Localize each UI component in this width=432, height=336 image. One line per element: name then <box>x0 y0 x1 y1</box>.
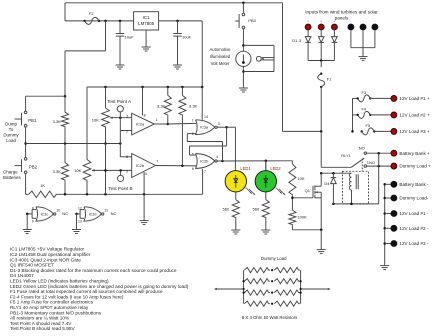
svg-text:+: + <box>320 19 322 23</box>
svg-text:PB2: PB2 <box>29 165 38 170</box>
svg-text:12V Load #3 +: 12V Load #3 + <box>399 129 429 134</box>
svg-text:F2: F2 <box>89 11 94 16</box>
svg-text:10K: 10K <box>92 118 99 123</box>
svg-text:F1: F1 <box>327 77 332 82</box>
svg-text:8 X 4 Ohm 50 Watt Resistors: 8 X 4 Ohm 50 Watt Resistors <box>242 315 297 320</box>
svg-text:RLY1 40 Amp SPDT automotive re: RLY1 40 Amp SPDT automotive relay <box>10 305 89 310</box>
svg-text:12V Load #2 +: 12V Load #2 + <box>399 113 429 118</box>
svg-text:10K: 10K <box>297 176 304 181</box>
svg-text:12V Load #1 +: 12V Load #1 + <box>399 96 429 101</box>
svg-text:8: 8 <box>144 114 146 118</box>
svg-text:4: 4 <box>145 172 147 176</box>
svg-text:Inputs from wind turbines and: Inputs from wind turbines and solar <box>305 10 378 15</box>
svg-text:D1-3: D1-3 <box>292 38 301 43</box>
svg-text:2: 2 <box>192 132 194 136</box>
svg-text:LM7805: LM7805 <box>138 21 154 26</box>
svg-text:F5 1 Amp Fuse for controller e: F5 1 Amp Fuse for controller electronics <box>10 300 94 305</box>
svg-text:IC2b: IC2b <box>136 163 144 168</box>
svg-text:1K: 1K <box>40 183 45 188</box>
svg-text:Dump: Dump <box>5 121 17 126</box>
svg-text:RLY1: RLY1 <box>341 153 351 158</box>
svg-text:11: 11 <box>104 208 108 212</box>
svg-text:F5: F5 <box>366 123 371 128</box>
svg-text:560: 560 <box>253 206 260 211</box>
svg-text:6: 6 <box>126 155 128 159</box>
svg-text:IC3c: IC3c <box>41 212 49 216</box>
svg-text:12V Load #1 -: 12V Load #1 - <box>399 211 428 216</box>
svg-text:-: - <box>374 19 375 23</box>
svg-text:IC2 LM1458 Dual operational am: IC2 LM1458 Dual operational amplifier <box>10 252 91 257</box>
svg-text:Dummy Load-: Dummy Load- <box>399 196 428 201</box>
svg-text:LED1 Yellow LED (indicates bat: LED1 Yellow LED (indicates batteries cha… <box>10 279 109 284</box>
svg-text:F3: F3 <box>362 90 367 95</box>
svg-text:IC2a: IC2a <box>136 122 145 127</box>
svg-text:12V Load #3 -: 12V Load #3 - <box>399 241 428 246</box>
svg-text:IC3d: IC3d <box>89 212 97 216</box>
svg-text:3.3K: 3.3K <box>189 103 198 108</box>
svg-text:3: 3 <box>126 114 128 118</box>
svg-text:Charge: Charge <box>3 170 18 175</box>
svg-text:2: 2 <box>126 130 128 134</box>
svg-text:NO: NO <box>359 145 365 150</box>
svg-text:Battery Bank -: Battery Bank - <box>399 182 429 187</box>
svg-text:13: 13 <box>78 219 82 223</box>
svg-text:IC3 4001 Quad 2-input NOR Gat: IC3 4001 Quad 2-input NOR Gate <box>10 257 81 262</box>
svg-text:+: + <box>307 19 309 23</box>
svg-text:PB1-3 Momentary contact N/O pu: PB1-3 Momentary contact N/O pushbuttons <box>10 310 102 315</box>
svg-text:560: 560 <box>223 206 230 211</box>
svg-text:12V Load #2 -: 12V Load #2 - <box>399 226 428 231</box>
svg-text:5: 5 <box>126 169 128 173</box>
svg-text:Test Point A should read 7.4V: Test Point A should read 7.4V <box>10 321 72 326</box>
svg-text:IC3a: IC3a <box>200 126 209 130</box>
svg-text:10uF: 10uF <box>125 34 135 39</box>
svg-text:NC: NC <box>62 211 68 216</box>
svg-text:Q1: Q1 <box>305 188 311 193</box>
svg-text:5: 5 <box>192 153 194 157</box>
svg-text:IC1: IC1 <box>143 15 150 20</box>
svg-text:All resistors are ¼ Watt 10%: All resistors are ¼ Watt 10% <box>10 316 70 321</box>
svg-text:Test Point B should read 5.95V: Test Point B should read 5.95V <box>10 326 75 331</box>
svg-text:D4 1N4007: D4 1N4007 <box>10 273 34 278</box>
svg-text:3.3K: 3.3K <box>157 103 166 108</box>
svg-text:14: 14 <box>204 115 208 119</box>
svg-text:Illuminated: Illuminated <box>210 54 231 59</box>
svg-text:10K: 10K <box>74 168 81 173</box>
svg-text:F1 Fuse rated at total expecte: F1 Fuse rated at total expected current … <box>10 289 163 294</box>
svg-text:NC: NC <box>111 211 117 216</box>
svg-text:F2-4 Fuses for 12 volt loads (: F2-4 Fuses for 12 volt loads (I use 10 A… <box>10 294 124 299</box>
svg-text:D4: D4 <box>324 181 330 186</box>
svg-text:6: 6 <box>192 167 194 171</box>
svg-text:10: 10 <box>56 208 60 212</box>
svg-text:9: 9 <box>32 219 34 223</box>
svg-text:7: 7 <box>156 159 158 163</box>
svg-text:Test Point B: Test Point B <box>108 186 132 191</box>
svg-text:PB3: PB3 <box>248 18 256 23</box>
svg-text:-: - <box>350 19 351 23</box>
svg-text:4: 4 <box>216 155 218 159</box>
svg-text:Test Point A: Test Point A <box>107 99 132 104</box>
svg-text:3: 3 <box>218 122 220 126</box>
svg-text:LED2: LED2 <box>270 166 281 171</box>
svg-text:Dummy Load +: Dummy Load + <box>399 164 431 169</box>
svg-text:7: 7 <box>204 170 206 174</box>
svg-text:10uF: 10uF <box>182 34 192 39</box>
svg-text:D1-3 Blocking diodes rated for: D1-3 Blocking diodes rated for the maxim… <box>10 268 177 273</box>
svg-text:Battery Bank +: Battery Bank + <box>399 151 430 156</box>
svg-text:+: + <box>333 19 335 23</box>
svg-text:1: 1 <box>156 118 158 122</box>
svg-text:Dummy: Dummy <box>3 132 19 137</box>
svg-text:Load: Load <box>6 138 16 143</box>
svg-text:1: 1 <box>192 118 194 122</box>
svg-text:1NO: 1NO <box>367 160 375 165</box>
svg-text:Batteries: Batteries <box>3 175 22 180</box>
svg-text:LED1: LED1 <box>240 166 251 171</box>
svg-text:To: To <box>9 127 14 132</box>
svg-text:LED2 Green LED (indicates batt: LED2 Green LED (indicates batteries are … <box>10 284 189 289</box>
svg-text:Automotive: Automotive <box>210 47 232 52</box>
svg-text:panels: panels <box>335 15 349 20</box>
svg-text:100K: 100K <box>297 214 307 219</box>
svg-text:IC3b: IC3b <box>200 159 208 163</box>
svg-text:3.3K: 3.3K <box>53 119 62 124</box>
svg-text:PB1: PB1 <box>28 118 37 123</box>
svg-text:3.3K: 3.3K <box>53 169 62 174</box>
svg-text:Dummy Load: Dummy Load <box>261 256 287 261</box>
svg-text:-: - <box>362 19 363 23</box>
svg-text:Q1 IRF540 MOSFET: Q1 IRF540 MOSFET <box>10 263 54 268</box>
svg-text:IC1 LM7805 +5V Voltage Regulat: IC1 LM7805 +5V Voltage Regulator <box>10 247 85 252</box>
svg-text:Volt Meter: Volt Meter <box>211 61 230 66</box>
